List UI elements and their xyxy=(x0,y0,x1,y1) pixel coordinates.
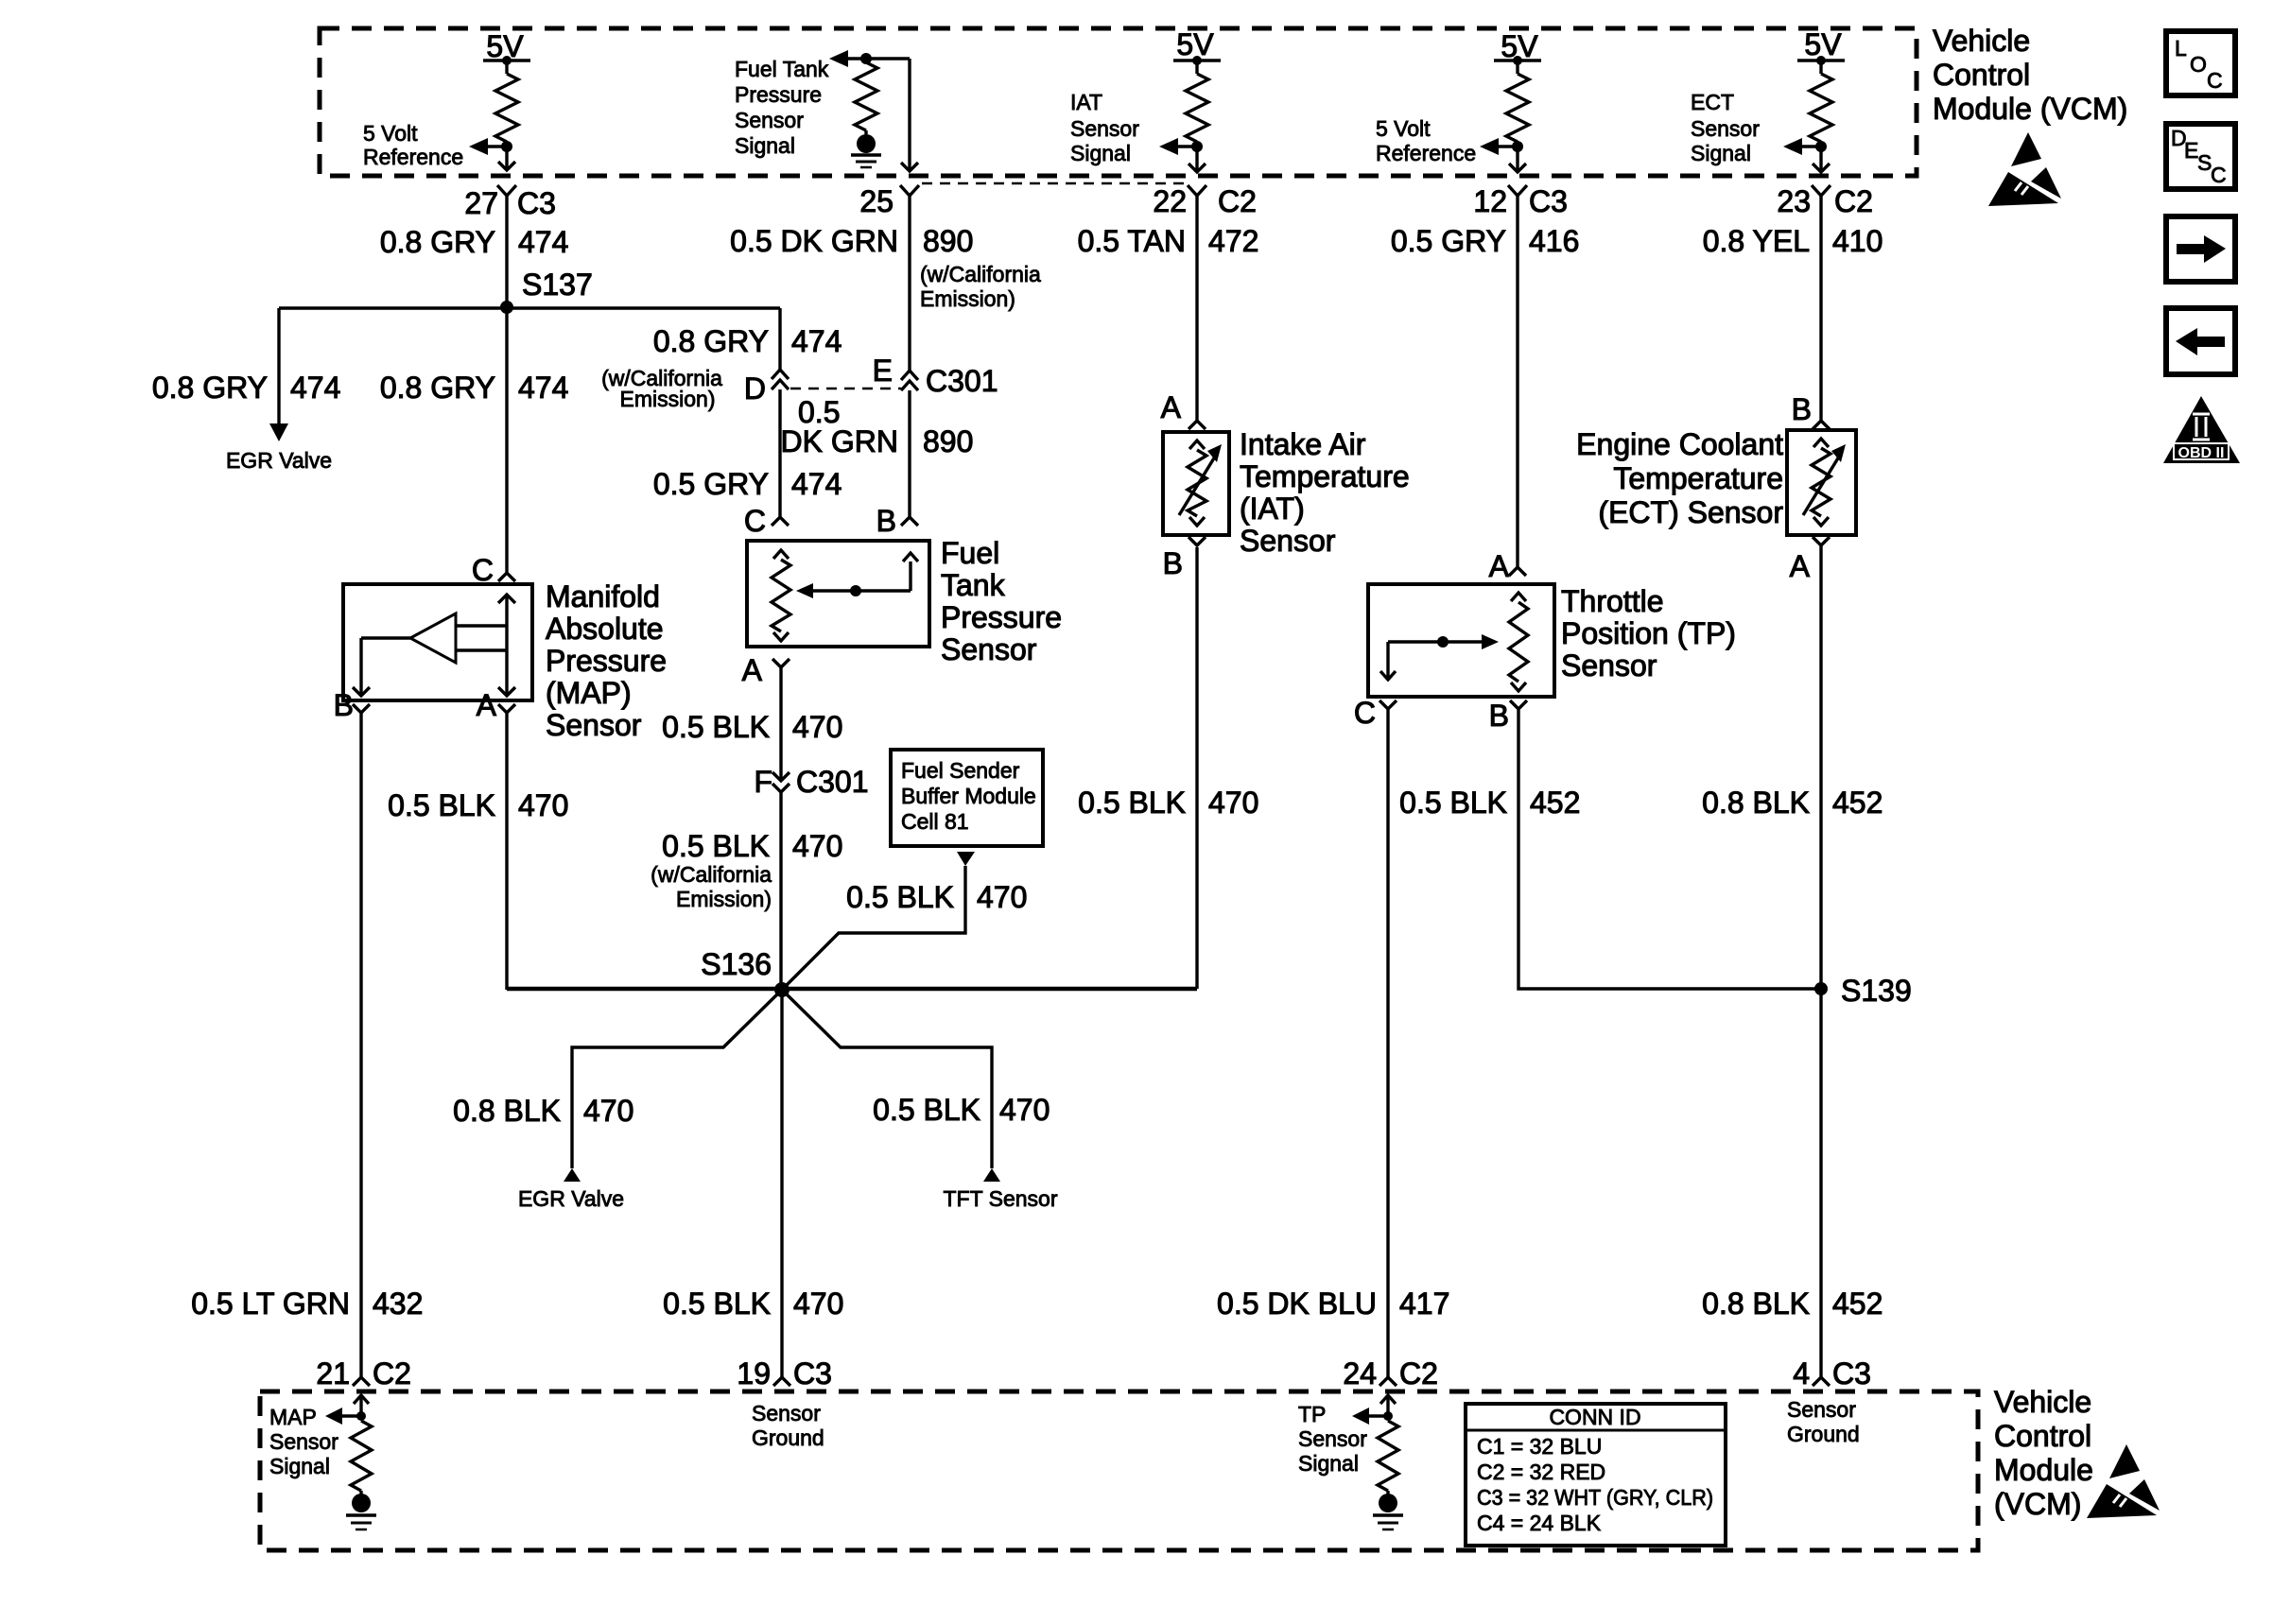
svg-text:S139: S139 xyxy=(1841,974,1912,1008)
svg-text:S137: S137 xyxy=(522,268,593,302)
resistor R5 (ECT pull-up, pin 23) xyxy=(1819,60,1822,74)
connector C301 pin E xyxy=(901,371,918,380)
junction dot FTP xyxy=(860,53,872,64)
svg-text:0.5 LT GRN: 0.5 LT GRN xyxy=(191,1287,350,1321)
wire S136 down to pin 19 xyxy=(780,990,783,1377)
ground symbol (TP signal) xyxy=(1379,1494,1397,1512)
pin 21 C2 connector fork xyxy=(353,1377,370,1386)
svg-text:470: 470 xyxy=(583,1094,633,1128)
TP sensor pin A fork xyxy=(1509,567,1526,576)
MAP internal amplifier xyxy=(410,613,456,663)
Fuel Tank Pressure Sensor box xyxy=(747,541,929,647)
ESD symbol (bottom) xyxy=(2087,1444,2160,1518)
svg-text:Signal: Signal xyxy=(1691,141,1751,165)
Throttle Position sensor box xyxy=(1368,584,1554,697)
MAP signal left arrow xyxy=(340,1414,361,1417)
svg-text:A: A xyxy=(477,688,497,722)
svg-text:452: 452 xyxy=(1832,1287,1883,1321)
ECT Sensor Signal arrow xyxy=(1798,145,1821,147)
IAT Sensor Signal arrow xyxy=(1174,145,1197,147)
wire C301 D to FTP C xyxy=(778,389,781,517)
svg-text:5 Volt: 5 Volt xyxy=(363,121,418,146)
5V terminal bar col1 xyxy=(483,59,530,61)
svg-text:23: 23 xyxy=(1777,184,1811,218)
svg-text:B: B xyxy=(1792,392,1812,426)
svg-text:0.8 BLK: 0.8 BLK xyxy=(453,1094,561,1128)
wire TP B to S139 xyxy=(1518,709,1821,989)
ECT sensor pin A fork xyxy=(1813,537,1830,545)
svg-text:Throttle: Throttle xyxy=(1561,584,1663,618)
IAT sensor pin A fork xyxy=(1189,421,1206,429)
wire pin27 to S137 xyxy=(505,196,508,307)
svg-text:Fuel Sender: Fuel Sender xyxy=(901,758,1020,783)
wire to EGR Valve (left) xyxy=(277,308,280,424)
junction dot col1 xyxy=(501,141,512,152)
svg-text:Signal: Signal xyxy=(1070,141,1131,165)
5V terminal bar TP xyxy=(1494,59,1541,61)
svg-text:474: 474 xyxy=(791,467,842,501)
down arrow into pin 23 xyxy=(1819,147,1822,172)
5V terminal bar ECT xyxy=(1797,59,1845,61)
svg-text:Control: Control xyxy=(1933,58,2030,92)
svg-text:470: 470 xyxy=(999,1093,1050,1127)
svg-text:Ground: Ground xyxy=(1787,1422,1860,1446)
svg-text:Emission): Emission) xyxy=(620,387,716,411)
svg-text:0.5 BLK: 0.5 BLK xyxy=(662,829,770,863)
svg-text:DK GRN: DK GRN xyxy=(781,424,898,458)
LOC icon box xyxy=(2166,31,2235,95)
svg-text:IAT: IAT xyxy=(1070,90,1102,114)
svg-text:C2: C2 xyxy=(373,1356,411,1391)
svg-text:0.5 BLK: 0.5 BLK xyxy=(663,1287,771,1321)
svg-text:Buffer Module: Buffer Module xyxy=(901,784,1036,808)
ground symbol (MAP signal) xyxy=(352,1494,371,1512)
svg-text:0.5 BLK: 0.5 BLK xyxy=(846,880,954,914)
svg-text:5 Volt: 5 Volt xyxy=(1376,116,1431,141)
FTP internal wiper arrow xyxy=(796,583,813,598)
svg-text:21: 21 xyxy=(316,1356,350,1391)
svg-text:(IAT): (IAT) xyxy=(1240,492,1305,526)
IAT sensor pin B fork xyxy=(1189,537,1206,545)
svg-text:F: F xyxy=(754,765,772,799)
svg-text:4: 4 xyxy=(1793,1356,1810,1391)
svg-text:Module: Module xyxy=(1994,1453,2093,1487)
svg-text:S136: S136 xyxy=(701,947,772,981)
FTP sensor pin B fork xyxy=(901,517,918,526)
FTP sensor pin C fork xyxy=(772,517,789,526)
ESD symbol (top) xyxy=(1988,132,2061,206)
5 Volt Reference arrow col1 xyxy=(484,145,507,147)
TP internal resistor xyxy=(1511,593,1526,601)
svg-text:Pressure: Pressure xyxy=(546,644,667,678)
svg-text:Sensor: Sensor xyxy=(1561,648,1657,682)
wire ECT A to pin 4 xyxy=(1819,545,1822,1377)
svg-text:0.5 TAN: 0.5 TAN xyxy=(1078,224,1186,258)
svg-text:Ground: Ground xyxy=(752,1425,824,1450)
svg-text:Pressure: Pressure xyxy=(735,82,822,107)
pin 22 C2 connector fork xyxy=(1188,185,1206,196)
pin 27 C3 connector fork xyxy=(497,185,516,196)
down arrow into pin 12 xyxy=(1516,147,1518,172)
svg-text:19: 19 xyxy=(737,1356,771,1391)
MAP sensor pin C fork xyxy=(498,573,515,581)
svg-text:Temperature: Temperature xyxy=(1240,459,1410,493)
svg-text:0.8 GRY: 0.8 GRY xyxy=(653,324,769,358)
wire fuel sender to S136 xyxy=(782,866,965,990)
svg-text:472: 472 xyxy=(1208,224,1258,258)
svg-text:474: 474 xyxy=(518,371,568,405)
svg-text:CONN ID: CONN ID xyxy=(1549,1405,1640,1429)
ECT sensor pin B fork xyxy=(1813,421,1830,429)
resistor R1 (5V pull-up, pin 27) xyxy=(505,60,508,74)
MAP signal up arrow xyxy=(359,1395,362,1416)
svg-text:B: B xyxy=(334,688,354,722)
pin 4 C3 connector fork xyxy=(1813,1377,1830,1386)
thin dashed california line below box xyxy=(922,182,1189,185)
svg-text:Intake Air: Intake Air xyxy=(1240,427,1366,461)
TP sensor pin B fork xyxy=(1510,700,1527,709)
svg-text:Sensor: Sensor xyxy=(941,632,1037,666)
svg-text:0.5 BLK: 0.5 BLK xyxy=(1399,786,1507,820)
svg-text:(w/California: (w/California xyxy=(651,862,772,887)
svg-text:C1 = 32 BLU: C1 = 32 BLU xyxy=(1477,1434,1602,1459)
svg-text:A: A xyxy=(1489,549,1510,583)
svg-text:Sensor: Sensor xyxy=(1691,116,1760,141)
svg-text:470: 470 xyxy=(793,1287,843,1321)
svg-text:Signal: Signal xyxy=(735,133,795,158)
TFT Sensor terminal arrow xyxy=(983,1168,1000,1182)
wire FTP A to C301 F xyxy=(779,667,782,781)
ground symbol (FTP resistor) xyxy=(857,134,876,153)
svg-text:474: 474 xyxy=(290,371,340,405)
MAP internal right wire with arrows xyxy=(505,595,508,696)
FTP internal resistor xyxy=(773,550,789,559)
svg-text:Emission): Emission) xyxy=(920,286,1015,311)
svg-text:Fuel Tank: Fuel Tank xyxy=(735,57,829,81)
pin 25 connector fork xyxy=(900,185,919,196)
wire C301 E to FTP B xyxy=(908,390,911,517)
svg-text:C3 = 32 WHT (GRY, CLR): C3 = 32 WHT (GRY, CLR) xyxy=(1477,1485,1713,1510)
left arrow icon box xyxy=(2166,308,2235,374)
svg-text:Temperature: Temperature xyxy=(1613,461,1783,495)
TP signal junction dot xyxy=(1383,1411,1393,1421)
pin 24 C2 connector fork xyxy=(1379,1377,1397,1386)
svg-text:410: 410 xyxy=(1832,224,1883,258)
EGR Valve terminal arrow (bottom) xyxy=(564,1168,581,1182)
svg-text:C3: C3 xyxy=(1832,1356,1871,1391)
svg-text:L: L xyxy=(2175,36,2187,60)
svg-text:Sensor: Sensor xyxy=(752,1401,821,1425)
down arrow into pin 22 xyxy=(1195,147,1198,172)
svg-text:C: C xyxy=(472,553,494,587)
svg-text:C301: C301 xyxy=(796,765,869,799)
svg-text:Sensor: Sensor xyxy=(735,108,804,132)
svg-text:416: 416 xyxy=(1529,224,1579,258)
svg-text:432: 432 xyxy=(373,1287,423,1321)
connector C301 pin D xyxy=(772,370,789,379)
svg-text:C3: C3 xyxy=(517,186,556,220)
OBD II triangle icon xyxy=(2163,396,2240,463)
svg-text:0.5 BLK: 0.5 BLK xyxy=(388,788,495,822)
VCM bottom dashed box xyxy=(260,1391,1978,1550)
svg-text:OBD II: OBD II xyxy=(2178,445,2225,461)
svg-text:470: 470 xyxy=(792,710,842,744)
svg-text:Signal: Signal xyxy=(269,1454,330,1478)
TP internal wiper arrow xyxy=(1388,640,1484,643)
svg-text:Signal: Signal xyxy=(1298,1451,1359,1476)
svg-text:0.8 GRY: 0.8 GRY xyxy=(380,225,495,259)
svg-text:C3: C3 xyxy=(793,1356,832,1391)
VCM top dashed box xyxy=(320,28,1917,176)
svg-text:A: A xyxy=(1790,549,1811,583)
svg-text:C2: C2 xyxy=(1218,184,1257,218)
junction dot IAT xyxy=(1191,141,1203,152)
svg-text:0.5 BLK: 0.5 BLK xyxy=(662,710,770,744)
svg-text:C4 = 24 BLK: C4 = 24 BLK xyxy=(1477,1511,1602,1535)
svg-text:Position (TP): Position (TP) xyxy=(1561,616,1736,650)
wire pin25 to C301 E xyxy=(908,196,911,371)
svg-text:0.8 BLK: 0.8 BLK xyxy=(1702,786,1810,820)
svg-text:0.8 BLK: 0.8 BLK xyxy=(1702,1287,1810,1321)
pin 19 C3 connector fork xyxy=(773,1377,790,1386)
wire down to pin 25 xyxy=(908,59,911,171)
svg-text:C2: C2 xyxy=(1834,184,1873,218)
TP signal left arrow xyxy=(1367,1414,1388,1417)
svg-text:0.8 GRY: 0.8 GRY xyxy=(380,371,495,405)
svg-text:417: 417 xyxy=(1399,1287,1449,1321)
wire pin 22 to IAT A xyxy=(1195,196,1198,421)
svg-text:Fuel: Fuel xyxy=(941,536,999,570)
right arrow icon box xyxy=(2166,216,2235,282)
svg-text:24: 24 xyxy=(1343,1356,1377,1391)
svg-text:27: 27 xyxy=(464,186,498,220)
svg-text:Module (VCM): Module (VCM) xyxy=(1933,92,2127,126)
wire S137 horizontal xyxy=(279,306,780,309)
svg-text:0.8 GRY: 0.8 GRY xyxy=(152,371,268,405)
Intake Air Temperature sensor box xyxy=(1163,432,1229,535)
svg-text:Sensor: Sensor xyxy=(546,708,642,742)
CONN ID table box xyxy=(1466,1404,1726,1546)
wire pin 23 to ECT B xyxy=(1819,196,1822,421)
svg-text:ECT: ECT xyxy=(1691,90,1734,114)
svg-text:Sensor: Sensor xyxy=(1298,1426,1367,1451)
svg-text:Reference: Reference xyxy=(363,145,463,169)
svg-text:470: 470 xyxy=(792,829,842,863)
svg-text:474: 474 xyxy=(791,324,842,358)
svg-text:C301: C301 xyxy=(926,364,998,398)
svg-text:D: D xyxy=(744,371,766,406)
C301 dashed connector line xyxy=(790,388,901,390)
svg-text:0.5 BLK: 0.5 BLK xyxy=(1078,786,1186,820)
svg-text:EGR Valve: EGR Valve xyxy=(518,1186,624,1211)
svg-text:452: 452 xyxy=(1832,786,1883,820)
svg-text:B: B xyxy=(876,504,896,538)
MAP internal left wire with arrow xyxy=(359,638,362,696)
svg-text:(MAP): (MAP) xyxy=(546,676,632,710)
wire S136 to TFT Sensor branch xyxy=(782,990,992,1168)
FTP sensor pin A fork xyxy=(772,659,789,667)
pin 12 C3 connector fork xyxy=(1508,185,1527,196)
svg-text:Control: Control xyxy=(1994,1419,2091,1453)
svg-text:E: E xyxy=(873,354,893,388)
svg-text:Sensor: Sensor xyxy=(1787,1397,1856,1422)
svg-text:Manifold: Manifold xyxy=(546,579,660,613)
svg-text:0.5 BLK: 0.5 BLK xyxy=(873,1093,980,1127)
svg-text:Reference: Reference xyxy=(1376,141,1476,165)
TP sensor pin C fork xyxy=(1379,700,1397,709)
svg-text:Absolute: Absolute xyxy=(546,612,664,646)
svg-text:Engine Coolant: Engine Coolant xyxy=(1576,427,1783,461)
svg-text:A: A xyxy=(742,653,763,687)
sensor ground bus wire xyxy=(507,987,1197,992)
MAP signal junction dot xyxy=(356,1411,366,1421)
svg-text:Sensor: Sensor xyxy=(1070,116,1139,141)
svg-text:0.5 GRY: 0.5 GRY xyxy=(653,467,769,501)
connector C301 pin F xyxy=(772,772,789,781)
EGR Valve terminal arrow xyxy=(269,423,288,441)
wire MAP A down to ground bus xyxy=(505,713,508,990)
wire S137 to C301 D xyxy=(778,308,781,370)
wire C301 F to S136 xyxy=(779,792,782,990)
svg-text:C: C xyxy=(1354,696,1376,730)
svg-text:(VCM): (VCM) xyxy=(1994,1487,2081,1521)
resistor R4 (5 Volt Reference, pin 12) xyxy=(1516,60,1518,74)
svg-text:Vehicle: Vehicle xyxy=(1933,24,2030,58)
Engine Coolant Temperature sensor box xyxy=(1787,430,1856,535)
svg-text:470: 470 xyxy=(518,788,568,822)
svg-text:C: C xyxy=(2207,68,2223,93)
svg-text:B: B xyxy=(1163,546,1183,580)
svg-text:(w/California: (w/California xyxy=(920,262,1041,286)
resistor R2 (fuel tank pressure pull-up) xyxy=(855,62,877,130)
svg-text:452: 452 xyxy=(1530,786,1580,820)
svg-text:Tank: Tank xyxy=(941,568,1006,602)
DESC icon box xyxy=(2166,124,2235,189)
svg-text:EGR Valve: EGR Valve xyxy=(226,448,332,473)
svg-text:B: B xyxy=(1489,699,1509,733)
svg-text:Vehicle: Vehicle xyxy=(1994,1385,2091,1419)
svg-text:Sensor: Sensor xyxy=(1240,524,1336,558)
Fuel Sender Buffer Module box xyxy=(891,750,1043,846)
junction dot ECT xyxy=(1815,141,1827,152)
svg-text:890: 890 xyxy=(923,424,973,458)
svg-text:A: A xyxy=(1161,390,1182,424)
MAP sensor pin B fork xyxy=(353,704,370,713)
svg-text:C: C xyxy=(744,504,766,538)
down arrow col1 into pin 27 xyxy=(505,147,508,170)
5 Volt Reference arrow col TP xyxy=(1495,145,1518,147)
splice S139 xyxy=(1814,982,1828,995)
Fuel Sender terminal arrow xyxy=(957,852,975,866)
svg-text:470: 470 xyxy=(977,880,1027,914)
wire pin 12 to TP A xyxy=(1516,196,1518,567)
wire S136 to EGR Valve branch xyxy=(572,990,782,1168)
wire S137 to MAP C xyxy=(505,307,508,573)
svg-text:25: 25 xyxy=(859,184,894,218)
junction dot TP xyxy=(1512,141,1523,152)
ECT internal thermistor xyxy=(1813,439,1829,447)
svg-text:Pressure: Pressure xyxy=(941,600,1062,634)
Fuel Tank Pressure Sensor Signal arrow xyxy=(829,50,848,67)
TP signal up arrow xyxy=(1386,1395,1389,1416)
svg-text:TFT Sensor: TFT Sensor xyxy=(944,1186,1058,1211)
resistor R7 (TP signal load) xyxy=(1378,1421,1398,1491)
svg-text:22: 22 xyxy=(1153,184,1187,218)
svg-text:MAP: MAP xyxy=(269,1405,317,1429)
svg-text:C: C xyxy=(2211,163,2227,187)
svg-text:0.8 YEL: 0.8 YEL xyxy=(1703,224,1810,258)
resistor R6 (MAP signal load) xyxy=(351,1421,372,1491)
svg-text:(ECT) Sensor: (ECT) Sensor xyxy=(1598,495,1783,529)
wire TP C to pin 24 xyxy=(1386,709,1389,1377)
svg-text:C2 = 32 RED: C2 = 32 RED xyxy=(1477,1460,1605,1484)
svg-text:C2: C2 xyxy=(1399,1356,1438,1391)
svg-text:Emission): Emission) xyxy=(676,887,772,911)
svg-text:0.5 DK BLU: 0.5 DK BLU xyxy=(1217,1287,1377,1321)
svg-text:TP: TP xyxy=(1298,1402,1326,1426)
pin 23 C2 connector fork xyxy=(1812,185,1831,196)
svg-text:890: 890 xyxy=(923,224,973,258)
svg-text:Cell 81: Cell 81 xyxy=(901,809,969,834)
wire MAP B to pin 21 xyxy=(359,713,362,1377)
wire IAT B down to bus xyxy=(1195,547,1198,989)
svg-text:C3: C3 xyxy=(1529,184,1568,218)
MAP sensor pin A fork xyxy=(498,704,515,713)
svg-text:0.5 DK GRN: 0.5 DK GRN xyxy=(730,224,898,258)
resistor R3 (IAT pull-up, pin 22) xyxy=(1195,60,1198,74)
svg-text:474: 474 xyxy=(518,225,568,259)
IAT internal thermistor xyxy=(1189,441,1205,449)
svg-text:0.5 GRY: 0.5 GRY xyxy=(1391,224,1506,258)
svg-text:Sensor: Sensor xyxy=(269,1429,338,1454)
svg-text:12: 12 xyxy=(1473,184,1507,218)
5V terminal bar IAT xyxy=(1173,59,1221,61)
Manifold Absolute Pressure sensor box xyxy=(343,584,532,700)
svg-text:470: 470 xyxy=(1208,786,1258,820)
svg-text:O: O xyxy=(2190,52,2207,77)
